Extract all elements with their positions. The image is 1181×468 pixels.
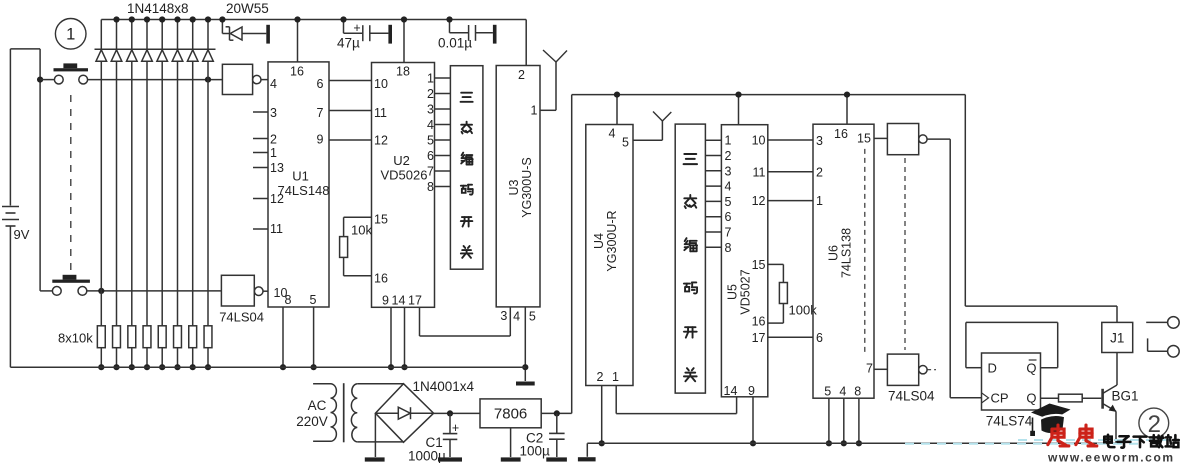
svg-text:3: 3 xyxy=(816,134,823,148)
transformer T1 primary winding xyxy=(313,384,336,442)
diode D8 (1N4148) with column wire xyxy=(203,20,214,326)
U5 pin 9 wire to ground bus xyxy=(752,397,754,444)
junction: rail / diode D2 xyxy=(113,16,119,22)
U1 name xyxy=(277,169,329,199)
svg-text:11: 11 xyxy=(753,165,766,179)
svg-text:5: 5 xyxy=(622,136,629,150)
svg-text:16: 16 xyxy=(290,65,304,79)
wire: S2 to inverter input xyxy=(87,290,222,292)
svg-text:17: 17 xyxy=(408,294,422,308)
decoder IC U6 74LS138 box xyxy=(813,124,874,398)
svg-text:14: 14 xyxy=(724,384,738,398)
battery 9V xyxy=(2,49,30,367)
U3 pin 2 wire from rail xyxy=(525,20,527,66)
junction: bus / U1 pin8 xyxy=(280,364,286,370)
relay contact (top) xyxy=(1146,317,1179,329)
junction: S2 to diode column 1 xyxy=(98,288,104,294)
junction: bus / U1 pin5 xyxy=(311,364,317,370)
resistor 7 of 8x10k xyxy=(189,326,197,367)
svg-text:16: 16 xyxy=(752,315,766,329)
inverter gate C (74LS04) at U6 pin 15 xyxy=(874,124,927,155)
U2 pin 9 wire to bus xyxy=(390,307,392,367)
svg-text:CP: CP xyxy=(991,391,1009,406)
resistor 100k (U5 osc) xyxy=(768,264,788,323)
inverter gate D (74LS04) at U6 pin 7 xyxy=(874,354,936,385)
code switch 2 vertical label xyxy=(684,154,698,381)
U2 pin 18 wire to rail xyxy=(403,20,405,63)
svg-text:47µ: 47µ xyxy=(337,36,360,51)
svg-text:7: 7 xyxy=(866,362,873,376)
wire: bridge + output to 7806 xyxy=(434,412,480,414)
wire: Q output xyxy=(1041,397,1059,399)
diode D7 (1N4148) with column wire xyxy=(187,20,198,326)
svg-text:VD5027: VD5027 xyxy=(738,269,752,314)
junction: resistor 3 to ground bus xyxy=(129,364,135,370)
resistor 1 of 8x10k xyxy=(97,326,105,367)
junction: bus / U2 pin14 xyxy=(401,364,407,370)
svg-text:U3: U3 xyxy=(507,179,521,195)
capacitor C1 1000u xyxy=(443,413,459,457)
capacitor 47u (electrolytic) xyxy=(337,20,392,51)
label AC 220V xyxy=(296,398,328,429)
svg-text:3: 3 xyxy=(270,106,277,120)
svg-text:10: 10 xyxy=(752,134,766,148)
svg-text:www.eeworm.com: www.eeworm.com xyxy=(1047,451,1175,464)
svg-text:0.01µ: 0.01µ xyxy=(438,36,472,51)
wires U1 pins 6,7,9 to U2 pins 10,11,12 xyxy=(329,81,372,141)
svg-text:Q: Q xyxy=(1026,361,1036,376)
7806 ground pin wire xyxy=(510,428,512,457)
U2 pin labels xyxy=(374,65,434,308)
U4 pin labels xyxy=(597,127,630,385)
U5 pin labels xyxy=(724,134,766,398)
junction: rail / U5 supply xyxy=(735,92,741,98)
wire: U2 pin 17 to U3 pin 3 xyxy=(420,307,511,336)
junctions: bus / U6 pins xyxy=(826,440,862,446)
junction: resistor 6 to ground bus xyxy=(174,364,180,370)
svg-text:16: 16 xyxy=(834,127,848,141)
watermark black text dianzi xiazaizhan xyxy=(1104,435,1179,448)
wire: rail to relay J1 supply xyxy=(965,95,1117,323)
U6 pin 16 wire to rail xyxy=(846,95,848,125)
svg-text:+: + xyxy=(452,421,459,435)
svg-text:6: 6 xyxy=(725,210,732,224)
junction: button feed node xyxy=(37,77,43,83)
inverter gate A (74LS04) at U1 pin 4 xyxy=(222,64,268,94)
svg-text:1: 1 xyxy=(725,134,732,148)
svg-text:9: 9 xyxy=(317,133,324,147)
svg-text:U2: U2 xyxy=(393,153,410,168)
svg-text:4: 4 xyxy=(270,77,277,91)
wire: +6V receiver rail xyxy=(572,94,966,96)
U5 top supply wire xyxy=(738,95,740,125)
svg-text:12: 12 xyxy=(374,134,388,148)
transformer core xyxy=(343,383,345,442)
svg-text:7: 7 xyxy=(725,226,732,240)
resistor 10k (U2 osc) xyxy=(340,217,372,275)
svg-text:74LS04: 74LS04 xyxy=(888,389,935,404)
svg-text:BG1: BG1 xyxy=(1112,389,1139,404)
junction: bus / U5 pin9 xyxy=(750,440,756,446)
svg-text:5: 5 xyxy=(529,310,536,324)
svg-text:15: 15 xyxy=(752,258,766,272)
wire: 7806 +6V output xyxy=(541,412,572,414)
U6 internal dashed separator xyxy=(864,149,866,356)
svg-text:15: 15 xyxy=(374,213,388,227)
relay contact (bottom) xyxy=(1148,338,1180,357)
svg-text:YG300U-S: YG300U-S xyxy=(520,157,534,217)
capacitor C2 100u xyxy=(549,413,565,457)
svg-text:7806: 7806 xyxy=(494,406,527,423)
wires U5 pins 10,11,12 to U6 pins 3,2,1 xyxy=(768,140,813,201)
svg-text:220V: 220V xyxy=(296,414,328,429)
ground (receiver bus) xyxy=(578,457,596,461)
svg-text:U6: U6 xyxy=(827,245,841,261)
svg-text:74LS74: 74LS74 xyxy=(986,414,1033,429)
svg-text:1: 1 xyxy=(612,370,619,384)
junction: rail / diode D4 xyxy=(144,16,150,22)
zener diode 20W55 xyxy=(222,20,270,44)
wire: +9V top rail xyxy=(101,19,526,21)
wire: Qbar to D feedback loop xyxy=(966,322,1058,367)
junction: C2 node xyxy=(554,410,560,416)
svg-text:8x10k: 8x10k xyxy=(58,331,93,346)
U2 pin 14 wire to bus xyxy=(404,307,406,367)
transistor BG1 xyxy=(1103,353,1117,444)
junction: rail / 0.01u xyxy=(446,16,452,22)
diode D3 (1N4148) with column wire xyxy=(127,20,138,326)
wires U2 data pins 1-8 to code switch box xyxy=(435,78,451,187)
svg-text:VD5026: VD5026 xyxy=(381,168,428,183)
svg-text:8: 8 xyxy=(725,241,732,255)
wire: battery + to push buttons xyxy=(10,49,40,291)
transformer T1 secondary winding xyxy=(351,384,403,442)
svg-text:12: 12 xyxy=(270,192,284,206)
svg-text:74LS138: 74LS138 xyxy=(840,228,854,278)
wire: U5 pin 17 to U6 pin 6 xyxy=(768,336,813,338)
U3 name (rotated) xyxy=(507,157,534,217)
U3 pin 4/5 ground wire xyxy=(524,307,526,381)
svg-text:YG300U-R: YG300U-R xyxy=(605,210,619,271)
svg-text:8: 8 xyxy=(854,385,861,399)
diode D5 (1N4148) with column wire xyxy=(157,20,168,326)
wire: transmitter ground bus xyxy=(10,366,525,368)
svg-text:2: 2 xyxy=(427,87,434,101)
diode D4 (1N4148) with column wire xyxy=(142,20,153,326)
junction: resistor 5 to ground bus xyxy=(159,364,165,370)
svg-text:1: 1 xyxy=(816,194,823,208)
ground (C2) xyxy=(546,457,567,461)
junction: bus / U2 pin9 xyxy=(388,364,394,370)
marker circle 1 (transmitter) xyxy=(55,19,86,50)
svg-text:Q: Q xyxy=(1026,391,1036,406)
svg-text:8: 8 xyxy=(427,180,434,194)
svg-text:5: 5 xyxy=(725,195,732,209)
ground (7806) xyxy=(501,457,521,461)
svg-text:7: 7 xyxy=(317,106,324,120)
svg-text:5: 5 xyxy=(824,385,831,399)
svg-text:18: 18 xyxy=(396,65,410,79)
svg-text:J1: J1 xyxy=(1110,331,1124,346)
diode D2 (1N4148) with column wire xyxy=(111,20,122,326)
svg-text:10k: 10k xyxy=(351,223,372,238)
svg-text:2: 2 xyxy=(518,68,525,82)
svg-text:4: 4 xyxy=(513,310,520,324)
junction: bus / U4 pin2 xyxy=(599,440,605,446)
bridge rectifier 1N4001x4 xyxy=(375,384,433,443)
svg-text:1N4148x8: 1N4148x8 xyxy=(127,1,189,16)
junction: resistor 4 to ground bus xyxy=(144,364,150,370)
junction: rail / U6 pin16 xyxy=(844,92,850,98)
junction: rail / diode D6 xyxy=(174,16,180,22)
junction: rail / diode D3 xyxy=(129,16,135,22)
regulator 7806 xyxy=(480,399,541,428)
junction: S1 to diode column 8 xyxy=(205,77,211,83)
svg-text:1: 1 xyxy=(270,146,277,160)
svg-text:1N4001x4: 1N4001x4 xyxy=(413,379,475,394)
dashed link between gates xyxy=(904,158,906,350)
svg-text:6: 6 xyxy=(427,149,434,163)
junction: resistor 2 to ground bus xyxy=(113,364,119,370)
svg-text:100µ: 100µ xyxy=(520,444,551,459)
U3 pin labels xyxy=(500,68,537,324)
junction: resistor 8 to ground bus xyxy=(205,364,211,370)
svg-text:9: 9 xyxy=(382,294,389,308)
junction: resistor 1 to ground bus xyxy=(98,364,104,370)
svg-text:3: 3 xyxy=(725,164,732,178)
junction: rail / U4 pin4 xyxy=(614,92,620,98)
svg-text:U5: U5 xyxy=(725,284,739,300)
U2 name xyxy=(381,153,428,183)
svg-text:2: 2 xyxy=(816,165,823,179)
capacitor 0.01u xyxy=(438,20,497,51)
inverter gate B (74LS04) at U1 pin 10 xyxy=(221,275,268,306)
junction: resistor 7 to ground bus xyxy=(190,364,196,370)
decoder IC U5 VD5027 box xyxy=(721,125,767,397)
resistor 4 of 8x10k xyxy=(143,326,151,367)
U6 pins 5,4,8 wires to ground bus xyxy=(829,398,859,443)
svg-text:1: 1 xyxy=(66,26,75,44)
svg-text:4: 4 xyxy=(839,385,846,399)
resistor 6 of 8x10k xyxy=(174,326,182,367)
svg-text:4: 4 xyxy=(427,118,434,132)
svg-text:D: D xyxy=(988,361,997,376)
svg-text:1: 1 xyxy=(531,104,538,118)
svg-text:4: 4 xyxy=(609,127,616,141)
resistor 5 of 8x10k xyxy=(158,326,166,367)
svg-text:14: 14 xyxy=(392,294,406,308)
U4 antenna (pin 5) xyxy=(633,112,671,141)
U1 unconnected input stubs (pins 3,2,1,13,12,11) xyxy=(253,112,268,229)
watermark red text chongchong xyxy=(1048,425,1097,446)
svg-text:3: 3 xyxy=(500,309,507,323)
ground (transmitter, under U3) xyxy=(516,382,535,386)
svg-text:7: 7 xyxy=(427,165,434,179)
svg-text:15: 15 xyxy=(857,131,871,145)
marker circle 2 (receiver) xyxy=(1139,408,1169,438)
junction: rail / zener xyxy=(219,16,225,22)
wire: gate C output to 74LS74 CP xyxy=(927,139,981,398)
watermark cyan dashed underline xyxy=(905,440,1180,444)
svg-text:10: 10 xyxy=(374,77,388,91)
tri-state code switch box 1 xyxy=(450,66,483,270)
svg-text:5: 5 xyxy=(427,134,434,148)
svg-text:20W55: 20W55 xyxy=(226,1,269,16)
encoder IC U2 VD5026 box xyxy=(372,63,435,308)
svg-text:1: 1 xyxy=(427,72,434,86)
pushbutton S1 (button 1) xyxy=(40,63,88,84)
U1 pin 16 wire to rail xyxy=(297,20,299,62)
resistor 8 of 8x10k xyxy=(204,326,212,367)
code switch 1 vertical label (san tai bian ma kai guan) xyxy=(461,93,473,258)
diode array 1N4148x8 shared cathode line xyxy=(95,48,216,50)
label C2 100u xyxy=(520,431,551,459)
op IC U1 74LS148 box xyxy=(268,62,329,307)
wire: receiver ground bus xyxy=(587,443,1116,457)
U4 pin 2 wire to ground bus xyxy=(601,386,603,444)
junction: C1 node xyxy=(447,410,453,416)
svg-text:2: 2 xyxy=(597,370,604,384)
svg-text:74LS04: 74LS04 xyxy=(219,310,264,325)
pushbutton S2 (button 2) xyxy=(40,275,90,296)
svg-text:74LS148: 74LS148 xyxy=(277,183,329,198)
resistor 3 of 8x10k xyxy=(128,326,136,367)
svg-text:11: 11 xyxy=(374,106,387,120)
svg-text:2: 2 xyxy=(1148,411,1161,438)
junction: rail / diode D8 xyxy=(205,16,211,22)
diode D1 (1N4148) with column wire xyxy=(96,20,107,326)
U1 pin 5 wire to bus xyxy=(313,307,315,367)
tri-state code switch box 2 xyxy=(675,124,705,393)
svg-text:12: 12 xyxy=(752,194,766,208)
junction: bus end / U3 ground xyxy=(522,364,528,370)
resistor 2 of 8x10k xyxy=(113,326,121,367)
junction: rail / diode D7 xyxy=(190,16,196,22)
diode D6 (1N4148) with column wire xyxy=(172,20,183,326)
wire: bridge negative to ground xyxy=(374,413,376,457)
watermark graduation cap xyxy=(1030,404,1070,437)
svg-text:U4: U4 xyxy=(592,233,606,249)
U1 pin labels xyxy=(270,65,324,308)
U1 pin 8 wire to bus xyxy=(282,307,284,367)
U3 antenna (pin 1) xyxy=(540,50,567,110)
U4 name (rotated) xyxy=(592,210,619,271)
transmitter IC U3 YG300U-S box xyxy=(496,66,540,307)
svg-text:13: 13 xyxy=(270,161,284,175)
svg-text:16: 16 xyxy=(374,272,388,286)
ground (C1) xyxy=(438,457,462,461)
ground (bridge) xyxy=(365,457,385,461)
U4 pin 4 wire to rail xyxy=(616,95,618,125)
mechanical link (dashed) between S1 and S2 xyxy=(70,95,72,278)
svg-text:8: 8 xyxy=(285,293,292,307)
svg-text:U1: U1 xyxy=(292,169,309,184)
svg-text:11: 11 xyxy=(270,222,283,236)
relay J1 xyxy=(1102,322,1133,352)
junction: rail / 47u xyxy=(340,16,346,22)
wire: U4 pin 1 to U5 pin 14 xyxy=(616,386,736,414)
svg-text:9V: 9V xyxy=(14,227,30,242)
74LS74 pin labels D, Qbar, CP, Q xyxy=(982,360,1037,406)
svg-text:6: 6 xyxy=(317,77,324,91)
svg-text:2: 2 xyxy=(270,133,277,147)
flip-flop U7 74LS74 box xyxy=(982,353,1041,410)
U6 name (rotated) xyxy=(827,228,854,278)
svg-text:1000µ: 1000µ xyxy=(408,449,446,464)
svg-text:4: 4 xyxy=(725,180,732,194)
svg-text:5: 5 xyxy=(310,293,317,307)
wire: resistor to BG1 base xyxy=(1082,397,1101,399)
U5 name (rotated) xyxy=(725,269,752,314)
svg-text:17: 17 xyxy=(752,331,766,345)
svg-text:3: 3 xyxy=(427,103,434,117)
svg-text:+: + xyxy=(353,21,360,35)
wire: +6V riser xyxy=(571,95,573,414)
svg-text:9: 9 xyxy=(748,384,755,398)
wire: S1 to inverter input xyxy=(88,79,223,81)
wires code switch 2 to U5 pins 1-8 xyxy=(705,140,721,247)
junction: rail / U2 pin18 xyxy=(401,16,407,22)
junction: rail / U1 pin16 xyxy=(294,16,300,22)
junction: rail / diode D5 xyxy=(159,16,165,22)
U6 pin labels xyxy=(816,127,873,399)
receiver IC U4 YG300U-R box xyxy=(586,125,633,386)
svg-text:2: 2 xyxy=(725,149,732,163)
label C1 1000u xyxy=(408,435,446,464)
svg-text:AC: AC xyxy=(308,398,327,413)
svg-text:6: 6 xyxy=(816,331,823,345)
resistor (base of BG1) xyxy=(1059,394,1083,402)
